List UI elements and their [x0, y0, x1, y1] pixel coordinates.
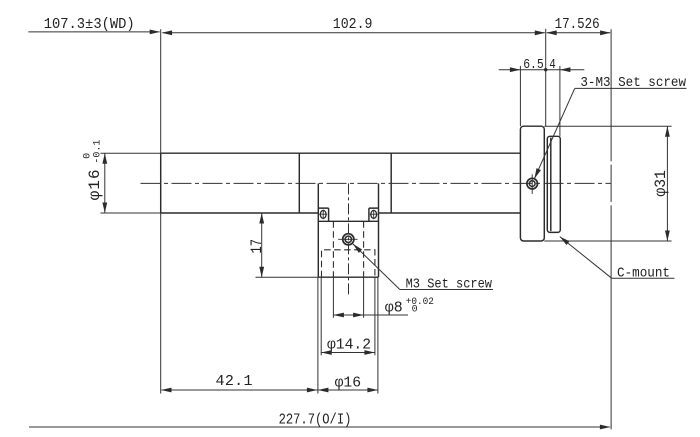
dot separator 6.5/4 — [544, 68, 547, 71]
extension line x=559.9 (4 right) — [559, 66, 561, 136]
svg-text:17.526: 17.526 — [555, 16, 600, 33]
ring set screw head (3-M3) — [527, 174, 538, 194]
block vertical center line (dash-dot) — [348, 183, 350, 295]
arrow 6.5 outside pointing right — [510, 67, 521, 72]
svg-text:227.7(O/I): 227.7(O/I) — [279, 412, 352, 428]
extension line: left edge vertical (107.3 / 42.1) — [160, 29, 162, 393]
C-mount flange outline — [547, 136, 560, 232]
tab screw symbol right — [370, 210, 378, 220]
svg-text:φ31: φ31 — [652, 170, 670, 197]
leader 3-M3 — [534, 88, 574, 178]
hidden hole phi8 right edge — [363, 221, 365, 277]
underline M3 — [400, 289, 493, 291]
hidden lines (dashed) — [322, 221, 375, 277]
clamp tab left — [318, 208, 328, 221]
rear ring (phi31) outline — [520, 126, 544, 241]
svg-text:4: 4 — [549, 58, 556, 73]
arrow 17 top — [259, 213, 264, 224]
dimension line phi31 — [666, 126, 668, 241]
arrow phi31 top — [665, 126, 670, 137]
clamp block bottom edge — [318, 276, 378, 278]
arrow 4 outside pointing left — [560, 67, 571, 72]
dimension line 102.9 — [163, 32, 545, 34]
extension line x=545.7 — [545, 29, 547, 126]
underline 3-M3 — [575, 87, 687, 89]
arrow phi31 bottom — [665, 231, 670, 242]
dimension line 17.526 — [547, 32, 611, 34]
tube section division line right — [390, 153, 392, 213]
leader M3 — [353, 244, 400, 290]
svg-text:C-mount: C-mount — [617, 267, 670, 282]
lens tube body outline — [161, 153, 521, 213]
tube section division line left — [298, 153, 300, 213]
text phi8 with tolerance — [385, 297, 434, 317]
arrow 17.526 right — [600, 30, 611, 35]
dimension line 107.3 — [28, 31, 159, 33]
arrow 107.3 right — [150, 30, 161, 35]
arrow 17.526 left — [546, 30, 557, 35]
svg-text:107.3±3(WD): 107.3±3(WD) — [44, 16, 135, 33]
arrow phi16 left bottom — [102, 203, 107, 214]
extension line 17 bottom — [256, 276, 319, 278]
center axis line (dash-dot) — [141, 182, 612, 184]
arrow 227.7 right — [600, 425, 611, 430]
svg-text:42.1: 42.1 — [216, 373, 253, 390]
dimension line 42.1 — [162, 389, 318, 391]
arrowheads — [102, 30, 669, 430]
svg-text:φ16: φ16 — [86, 169, 104, 200]
text phi16 left with tolerance (rotated) — [83, 140, 104, 201]
extension lines phi16 left — [101, 153, 161, 213]
dimension line phi16 left — [104, 153, 106, 213]
arrow leader M3 — [353, 244, 362, 253]
arrow 102.9 right — [535, 30, 546, 35]
arrow phi16 bottom left — [318, 388, 329, 393]
arrow phi8 right — [353, 313, 364, 318]
phi8 extension lines below block — [333, 277, 363, 318]
svg-text:3-M3 Set screw: 3-M3 Set screw — [580, 76, 686, 91]
dimension line phi14.2 — [321, 352, 375, 354]
dimension line phi16 bottom — [318, 389, 377, 391]
arrow phi8 left — [333, 313, 344, 318]
svg-text:+0.02: +0.02 — [406, 297, 434, 308]
dimension line 6.5 and 4 with outside tails — [499, 69, 585, 71]
clamp block top edge — [318, 220, 378, 222]
hidden slot rectangle — [322, 250, 375, 277]
C-mount flange inner step line — [550, 138, 552, 232]
arrow phi14.2 left — [321, 350, 332, 355]
arrow 17 bottom — [259, 267, 264, 278]
phi31 bottom extension line — [544, 240, 671, 242]
svg-text:φ8: φ8 — [385, 300, 403, 317]
arrow phi16 left top — [102, 153, 107, 164]
phi31 top extension line — [544, 125, 671, 127]
phi16 extension lines below block — [318, 277, 378, 393]
phi14.2 extension lines — [321, 277, 375, 355]
clamp tab right — [369, 208, 379, 221]
extension line x=520.4 (6.5 left) — [519, 66, 521, 126]
svg-text:φ14.2: φ14.2 — [327, 336, 371, 353]
arrow phi16 bottom right — [367, 388, 378, 393]
arrow leader 3-M3 — [534, 168, 541, 179]
tab screw symbol left — [319, 210, 327, 220]
svg-text:-0.1: -0.1 — [93, 140, 104, 164]
svg-text:102.9: 102.9 — [333, 16, 373, 33]
dimension line 227.7 — [29, 426, 610, 428]
arrow leader C-mount — [560, 237, 570, 245]
dimension line phi8 — [333, 314, 408, 316]
svg-text:M3 Set screw: M3 Set screw — [406, 278, 492, 293]
underline C-mount — [612, 277, 675, 279]
clamp block left side — [317, 183, 319, 277]
arrow 102.9 left — [162, 30, 173, 35]
arrow 42.1 right — [307, 388, 318, 393]
svg-text:6.5: 6.5 — [523, 58, 544, 73]
svg-text:φ16: φ16 — [335, 375, 362, 392]
svg-text:0: 0 — [412, 305, 418, 316]
svg-text:17: 17 — [248, 239, 266, 254]
arrow phi14.2 right — [364, 350, 375, 355]
block set screw head (M3) — [338, 234, 357, 245]
clamp block right side — [378, 183, 380, 277]
arrow 42.1 left — [161, 388, 172, 393]
hidden hole phi8 left edge — [332, 221, 334, 277]
leader C-mount — [560, 237, 612, 279]
image plane phantom line — [610, 29, 612, 429]
dimension line 17 — [261, 213, 263, 277]
